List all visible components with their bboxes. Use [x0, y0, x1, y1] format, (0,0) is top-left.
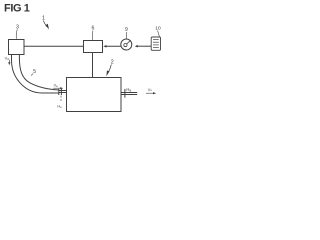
label 9 with leader	[125, 27, 128, 39]
label He with dashed leader (inlet level)	[57, 96, 62, 109]
svg-text:5: 5	[33, 69, 36, 75]
box 3 (pressure source unit)	[9, 40, 25, 55]
svg-text:FIG 1: FIG 1	[4, 3, 30, 15]
label Ve with right arrow (inlet flow)	[53, 84, 63, 90]
svg-text:Vd: Vd	[5, 56, 10, 60]
label 5 with leader	[31, 69, 36, 76]
wire box3 to box6	[24, 45, 84, 47]
flange at outlet	[124, 89, 126, 98]
svg-text:He: He	[57, 104, 62, 108]
reference label 1 with arrow	[42, 16, 49, 30]
wire doc10 to circle9 with left arrowhead	[135, 45, 151, 48]
label Vd with down arrow (flow into pipe)	[5, 56, 11, 65]
svg-text:3: 3	[16, 24, 19, 30]
label 3 with leader	[16, 24, 19, 38]
flange at pipe inlet to box2	[59, 89, 62, 95]
box 2 (container)	[67, 78, 122, 112]
pipe 5 (curved hose from box3 to box2)	[12, 54, 67, 93]
outlet pipe on right of box2	[121, 93, 137, 95]
svg-text:Ve: Ve	[54, 84, 59, 88]
label Ha with leader tick	[126, 87, 131, 92]
svg-text:10: 10	[155, 25, 161, 31]
svg-text:Vs: Vs	[148, 88, 153, 92]
label 10 with leader	[155, 25, 161, 36]
label 6 with leader	[92, 26, 95, 41]
document icon 10	[151, 37, 160, 50]
svg-text:Ha: Ha	[126, 87, 131, 92]
box 6 (control unit)	[84, 41, 103, 53]
sensor circle 9	[121, 39, 132, 50]
wire box6 to box2	[92, 53, 94, 78]
wire circle9 to box6 with left arrowhead	[103, 45, 121, 48]
label 2 with leader arrow	[106, 59, 113, 76]
label Vs with right arrow (outlet flow)	[146, 88, 156, 95]
